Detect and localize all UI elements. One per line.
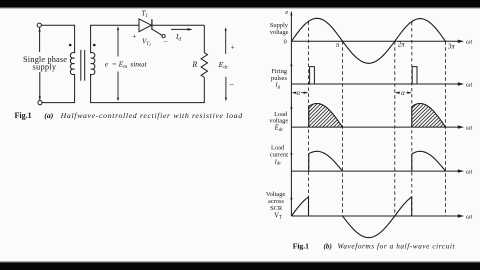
dashed line 3pi: [445, 41, 447, 216]
transformer secondary coil: [91, 53, 95, 75]
wire: horizontal axis of waveform panel 1: [291, 40, 458, 42]
SCR voltage segment 2pi to 2pi+alpha: [395, 197, 412, 216]
firing pulse 1: [310, 67, 315, 84]
wire: secondary bottom wire: [91, 75, 205, 103]
alpha span marker 1: [292, 92, 295, 94]
svg-text:Supply: Supply: [270, 22, 289, 29]
polarity dot primary: [69, 44, 72, 47]
dashed line pi: [342, 41, 344, 216]
wire: supply line upper segment with up arrow: [39, 28, 41, 51]
dashed line alpha: [308, 22, 310, 217]
load voltage lobe 2 hatched: [412, 104, 446, 127]
svg-text:(a): (a): [44, 111, 53, 120]
wire: right rail upper: [203, 25, 205, 52]
resistor R: [201, 53, 207, 78]
load current lobe 2: [412, 151, 446, 171]
dashed line 2pi+alpha: [411, 22, 413, 216]
svg-text:–: –: [163, 37, 168, 45]
wire: SCR cathode to right rail: [152, 24, 204, 26]
supply voltage sine wave: [291, 18, 445, 63]
svg-text:2π: 2π: [398, 41, 405, 48]
bottom letterbox bar: [0, 262, 480, 270]
wire: common vertical axis line: [290, 12, 292, 216]
SCR voltage segment 0 to alpha: [291, 197, 308, 216]
e source arrow up: [117, 28, 119, 57]
svg-text:ωt: ωt: [466, 168, 472, 175]
transformer primary coil: [70, 53, 74, 75]
svg-text:voltage: voltage: [270, 29, 289, 36]
load current lobe 1: [309, 151, 343, 171]
wire: primary bottom wire: [42, 75, 75, 103]
svg-text:+: +: [231, 42, 235, 51]
svg-text:R: R: [191, 60, 197, 69]
terminal: top input terminal: [37, 23, 41, 27]
svg-text:pulses: pulses: [271, 75, 287, 82]
firing pulse 2: [412, 67, 417, 84]
polarity dot secondary: [93, 44, 96, 47]
svg-text:SCR: SCR: [270, 205, 283, 212]
arrowhead: vertical axis panel 3: [290, 105, 292, 109]
wire: horizontal axis of waveform panel 2: [291, 83, 458, 85]
wire: horizontal axis of waveform panel 4: [291, 170, 458, 172]
arrowhead: vertical axis panel 2: [290, 63, 292, 67]
E_dc measurement arrows: [225, 29, 227, 54]
arrowhead: vertical axis panel 4: [290, 151, 292, 155]
svg-text:Fig.1: Fig.1: [15, 111, 32, 120]
current arrow I_d: [171, 28, 190, 30]
wire: horizontal axis of waveform panel 5: [291, 215, 458, 217]
svg-text:ωt: ωt: [466, 124, 472, 131]
wire: right rail lower: [203, 77, 205, 102]
svg-text:ωt: ωt: [466, 39, 472, 46]
e source arrow down: [117, 72, 119, 100]
dashed line 2pi: [394, 41, 396, 216]
alpha span marker 2: [396, 92, 400, 94]
gate lead and gate terminal of T1: [152, 29, 162, 35]
svg-text:α: α: [296, 89, 300, 97]
svg-text:π: π: [336, 42, 340, 49]
wire: secondary top wire to SCR anode: [91, 25, 139, 52]
svg-text:+: +: [132, 32, 136, 41]
wire: supply line lower segment with down arrow: [39, 73, 41, 100]
svg-text:(b): (b): [324, 242, 332, 250]
svg-text:Fig.1: Fig.1: [293, 241, 309, 250]
arrowhead: vertical axis panel 5: [290, 196, 292, 200]
svg-text:Halfwave-controlled rectifier: Halfwave-controlled rectifier with resis…: [60, 111, 243, 120]
svg-text:Waveforms for a half-wave circ: Waveforms for a half-wave circuit: [338, 242, 456, 250]
svg-text:3π: 3π: [447, 43, 455, 50]
svg-text:α: α: [401, 89, 405, 97]
thyristor T1: [139, 19, 151, 32]
svg-text:voltage: voltage: [269, 118, 288, 125]
SCR voltage negative half cycle: [343, 216, 395, 238]
svg-text:ωt: ωt: [466, 213, 472, 220]
svg-text:e: e: [285, 9, 288, 16]
svg-text:ωt: ωt: [466, 81, 472, 88]
arrowhead: vertical axis panel 1: [290, 12, 292, 16]
terminal: bottom input terminal: [38, 101, 42, 105]
svg-text:current: current: [270, 151, 288, 158]
transformer core: [80, 50, 82, 80]
load voltage lobe 1 hatched: [309, 104, 343, 127]
arrowhead: supply line down arrow: [39, 96, 41, 100]
top letterbox bar: [0, 0, 480, 8]
wire: horizontal axis of waveform panel 3: [291, 126, 458, 128]
wire: primary top wire: [41, 25, 74, 52]
arrowhead: supply line up arrow: [39, 28, 41, 32]
svg-text:supply: supply: [33, 63, 57, 72]
